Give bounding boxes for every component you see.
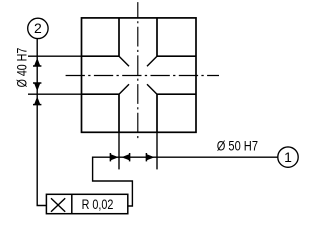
extension line top (dim 40): [28, 55, 82, 57]
extension line bottom (dim 40): [28, 93, 82, 95]
svg-text:Ø 50 H7: Ø 50 H7: [217, 138, 258, 154]
horizontal centerline: [66, 75, 219, 77]
arrow up leader below bottom extension: [34, 96, 40, 104]
arrow right outside left extension: [111, 154, 119, 160]
arrow right inside: [147, 154, 155, 160]
extension line left (dim 50): [118, 132, 120, 169]
vertical bore edge right: [156, 18, 158, 132]
arrow up at top extension: [34, 58, 40, 66]
tolerance frame box: [46, 194, 127, 213]
svg-text:R 0,02: R 0,02: [82, 196, 114, 212]
tolerance symbol X: [51, 198, 65, 212]
bore intersection diagonal top-right: [147, 56, 157, 66]
arrow down at bottom extension: [34, 83, 40, 91]
bore intersection diagonal top-left: [119, 56, 129, 66]
bore intersection diagonal bottom-left: [119, 84, 129, 94]
extension line right (dim 50): [156, 132, 158, 169]
horizontal bore edge bottom: [82, 93, 197, 95]
svg-text:1: 1: [284, 149, 292, 165]
vertical centerline: [137, 2, 139, 140]
horizontal dimension line to balloon 1: [93, 157, 278, 206]
svg-text:2: 2: [34, 20, 42, 36]
tolerance frame divider: [71, 194, 73, 213]
balloon 1 circle: [278, 147, 298, 167]
arrow left inside: [121, 154, 129, 160]
vertical bore edge left: [118, 18, 120, 132]
vertical dimension/leader line: [37, 39, 46, 206]
svg-text:Ø 40 H7: Ø 40 H7: [13, 48, 29, 88]
bore intersection diagonal bottom-right: [147, 84, 157, 94]
part outline (square body): [82, 18, 197, 132]
horizontal bore edge top: [82, 55, 197, 57]
balloon 2 circle: [28, 18, 48, 38]
